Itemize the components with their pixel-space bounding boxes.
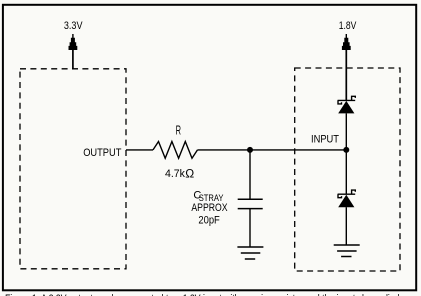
junction dot at input node <box>343 147 349 153</box>
wire diode D1 to input node <box>345 113 347 149</box>
svg-text:Ω: Ω <box>185 166 194 180</box>
caption (clipped at bottom edge) <box>5 293 411 296</box>
capacitor CSTRAY label <box>191 189 228 226</box>
wire resistor to input node <box>198 149 347 151</box>
receiver IC box (dashed) <box>295 68 400 271</box>
svg-text:20pF: 20pF <box>198 215 220 227</box>
wire input node to diode D2 <box>345 150 347 194</box>
1.8V supply label <box>339 20 357 32</box>
wire diode D2 to ground <box>345 207 347 245</box>
wire OUTPUT to resistor <box>126 149 153 151</box>
svg-text:OUTPUT: OUTPUT <box>83 147 121 159</box>
ground (capacitor) <box>237 247 263 259</box>
svg-text:3.3V: 3.3V <box>64 20 83 32</box>
node OUTPUT label <box>83 147 121 159</box>
resistor R <box>153 142 198 159</box>
diode D2 (lower clamp, schottky) <box>338 190 356 207</box>
1.8V supply arrow <box>342 34 351 100</box>
driver IC box (dashed) <box>20 69 126 269</box>
ground (input clamp) <box>334 245 360 257</box>
svg-text:INPUT: INPUT <box>311 134 339 146</box>
3.3V supply arrow <box>69 34 78 69</box>
svg-text:4.7k: 4.7k <box>165 168 185 180</box>
junction dot at capacitor tap <box>247 147 253 153</box>
wire capacitor to ground <box>249 209 251 247</box>
diode D1 (upper clamp, schottky) <box>338 96 356 113</box>
svg-text:R: R <box>176 124 181 138</box>
svg-text:1.8V: 1.8V <box>339 20 357 32</box>
node INPUT label <box>311 134 339 146</box>
resistor value 4.7k ohm <box>165 166 194 180</box>
wire junction to capacitor <box>249 150 251 199</box>
svg-text:APPROX: APPROX <box>191 202 228 214</box>
resistor R designator <box>176 124 181 138</box>
3.3V supply label <box>64 20 83 32</box>
capacitor CSTRAY <box>238 199 263 208</box>
